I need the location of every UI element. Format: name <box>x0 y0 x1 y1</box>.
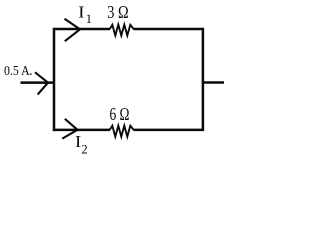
label I2 (bottom branch current) <box>75 132 88 157</box>
svg-text:1: 1 <box>86 12 92 26</box>
wire output lead right <box>202 81 224 84</box>
svg-text:3 Ω: 3 Ω <box>107 2 128 22</box>
svg-text:0.5 A: 0.5 A <box>4 63 30 78</box>
wire right vertical (node joining branches to output lead) <box>202 28 205 131</box>
resistor R2 (6 ohm, bottom branch) <box>110 126 134 137</box>
arrow current direction input lead <box>35 72 48 94</box>
wire bottom branch right segment <box>133 129 204 132</box>
svg-text:I: I <box>78 3 85 22</box>
label I1 (top branch current) <box>78 3 92 27</box>
wire left vertical (node between source lead and both branches) <box>53 28 56 131</box>
svg-text:6 Ω: 6 Ω <box>110 104 130 124</box>
svg-text:2: 2 <box>81 143 87 154</box>
resistor R1 (3 ohm, top branch) <box>110 25 134 36</box>
wire bottom branch left segment <box>53 129 110 132</box>
arrow current direction I1 top branch <box>65 19 81 41</box>
wire top branch left segment <box>53 28 110 31</box>
arrow current direction I2 bottom branch <box>62 119 77 139</box>
wire input lead left (0.5 A source) <box>21 81 55 84</box>
wire top branch right segment <box>133 28 204 31</box>
